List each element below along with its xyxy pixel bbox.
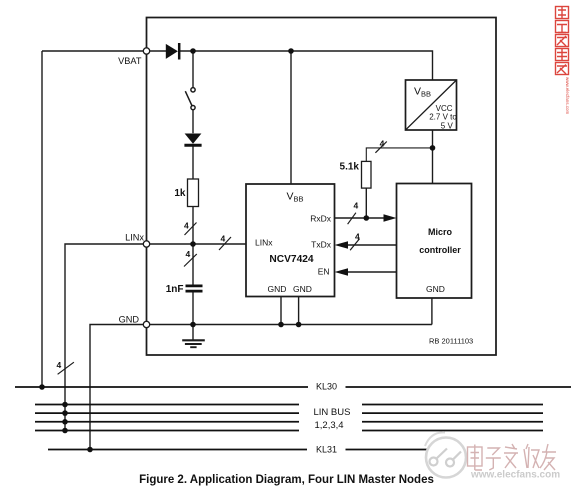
- bus LIN lines left: [35, 405, 299, 431]
- wire 5.1k top feed: [366, 148, 432, 162]
- arrow into NCV EN: [335, 268, 349, 275]
- svg-text:4: 4: [57, 360, 62, 370]
- svg-text:LINx: LINx: [255, 238, 273, 248]
- junction dot LIN bus 1: [62, 402, 68, 408]
- junction dot RxDx: [364, 215, 370, 221]
- svg-text:LINx: LINx: [125, 232, 144, 242]
- svg-text:4: 4: [186, 249, 191, 259]
- bus LIN lines right: [362, 405, 543, 431]
- wire diode2 to R1: [192, 146, 194, 179]
- frame box: [147, 18, 497, 356]
- wire RxDx: [335, 217, 385, 219]
- resistor R2 5.1k: [362, 161, 372, 188]
- svg-text:VCC: VCC: [436, 104, 453, 113]
- svg-text:NCV7424: NCV7424: [269, 254, 314, 265]
- svg-text:GND: GND: [426, 284, 445, 294]
- slash 4 on left bus drop: [57, 360, 74, 374]
- svg-text:GND: GND: [293, 284, 312, 294]
- microcontroller U3 box: [397, 184, 472, 299]
- wire LINx node down to C1: [192, 244, 194, 285]
- wire VBAT horizontal: [42, 50, 143, 52]
- svg-text:5.1k: 5.1k: [340, 161, 360, 172]
- resistor R1 1k: [188, 179, 199, 207]
- node GND circle: [143, 321, 149, 327]
- junction dot LINx node: [190, 241, 196, 247]
- wire R1 to LINx node: [192, 207, 194, 245]
- arrow into NCV TxDx: [335, 241, 349, 248]
- svg-text:LIN BUS: LIN BUS: [314, 407, 351, 418]
- slash 4 below LINx node: [184, 249, 197, 267]
- wire regulator to MC: [432, 130, 434, 184]
- junction dot KL31: [87, 447, 93, 453]
- svg-text:GND: GND: [268, 284, 287, 294]
- svg-text:4: 4: [221, 234, 226, 244]
- ground symbol: [182, 340, 205, 347]
- wire VBB pin vertical: [290, 51, 292, 184]
- junction dot LIN bus 3: [62, 419, 68, 425]
- diode D1 (reverse battery protection): [166, 43, 179, 60]
- junction dot NCV gnd2: [296, 322, 302, 328]
- wire MC GND: [431, 298, 433, 325]
- junction dot top diode: [190, 48, 196, 54]
- wire TxDx: [348, 244, 397, 246]
- svg-text:Micro: Micro: [428, 227, 453, 237]
- slash 4 on TxDx: [350, 232, 360, 251]
- wire GND right: [150, 324, 432, 326]
- svg-text:VBAT: VBAT: [118, 56, 142, 66]
- wire NCV GND pin 1: [280, 297, 282, 325]
- svg-text:4: 4: [355, 232, 360, 242]
- svg-text:www.elecfans.com: www.elecfans.com: [470, 470, 560, 481]
- wire switch top: [192, 51, 194, 88]
- voltage regulator U2 (VBB to VCC 2.7V-5V) box: [406, 80, 457, 130]
- svg-text:2.7 V to: 2.7 V to: [429, 113, 457, 122]
- wire LINx right of circle: [150, 243, 246, 245]
- wire left drop x42: [41, 51, 43, 387]
- svg-text:RB 20111103: RB 20111103: [429, 336, 473, 345]
- node VBAT circle: [143, 48, 149, 54]
- svg-text:www.elecfans.com: www.elecfans.com: [565, 77, 570, 115]
- bus line KL31: [48, 449, 462, 451]
- wire LINx horizontal left: [65, 244, 143, 431]
- svg-text:GND: GND: [119, 314, 140, 324]
- wire 5.1k bottom: [365, 188, 367, 218]
- junction dot VBB tap: [288, 48, 294, 54]
- wire EN: [348, 271, 397, 273]
- svg-text:TxDx: TxDx: [311, 239, 332, 249]
- svg-text:Figure 2. Application Diagram,: Figure 2. Application Diagram, Four LIN …: [139, 474, 434, 486]
- switch S1: [185, 88, 195, 110]
- svg-text:RxDx: RxDx: [310, 213, 332, 223]
- watermark red vertical top right: [556, 7, 569, 75]
- capacitor C1: [186, 286, 203, 291]
- ground stub: [192, 325, 194, 340]
- wire switch bottom to diode2: [192, 110, 194, 134]
- node LINx circle: [143, 241, 149, 247]
- junction dot LIN bus 4: [62, 428, 68, 434]
- svg-text:KL31: KL31: [316, 444, 337, 454]
- svg-text:EN: EN: [318, 267, 330, 277]
- junction dot ground node: [190, 322, 196, 328]
- slash 4 above LINx node: [184, 221, 197, 236]
- junction dot regulator: [430, 145, 436, 151]
- regulator diagonal: [406, 81, 456, 130]
- transceiver U1 NCV7424 box: [246, 184, 335, 297]
- wire GND left: [90, 325, 143, 450]
- svg-text:4: 4: [184, 221, 189, 231]
- svg-text:5 V: 5 V: [441, 121, 454, 130]
- arrow into MC RxDx: [384, 214, 397, 221]
- watermark chinese chars bottom: [468, 444, 557, 470]
- svg-text:4: 4: [354, 201, 359, 211]
- svg-text:1nF: 1nF: [166, 284, 184, 295]
- junction dot NCV gnd1: [278, 322, 284, 328]
- bus line KL30: [15, 386, 571, 388]
- slash 4 on RxDx: [348, 201, 359, 225]
- watermark logo bottom right: [425, 432, 466, 477]
- slash 4 right of LINx node: [219, 234, 231, 251]
- svg-text:controller: controller: [419, 245, 461, 255]
- junction dot KL30: [39, 384, 45, 390]
- svg-text:4: 4: [380, 139, 385, 149]
- wire diode to regulator corner: [180, 51, 433, 80]
- svg-text:KL30: KL30: [316, 381, 337, 391]
- slash 4 on regulator feed: [375, 139, 386, 153]
- svg-text:1k: 1k: [174, 188, 186, 199]
- wire VBAT to diode: [150, 50, 166, 52]
- diode D2 (LED): [184, 134, 201, 146]
- svg-text:1,2,3,4: 1,2,3,4: [315, 420, 344, 431]
- wire NCV GND pin 2: [298, 297, 300, 325]
- junction dot LIN bus 2: [62, 410, 68, 416]
- wire C1 to GND wire: [192, 292, 194, 324]
